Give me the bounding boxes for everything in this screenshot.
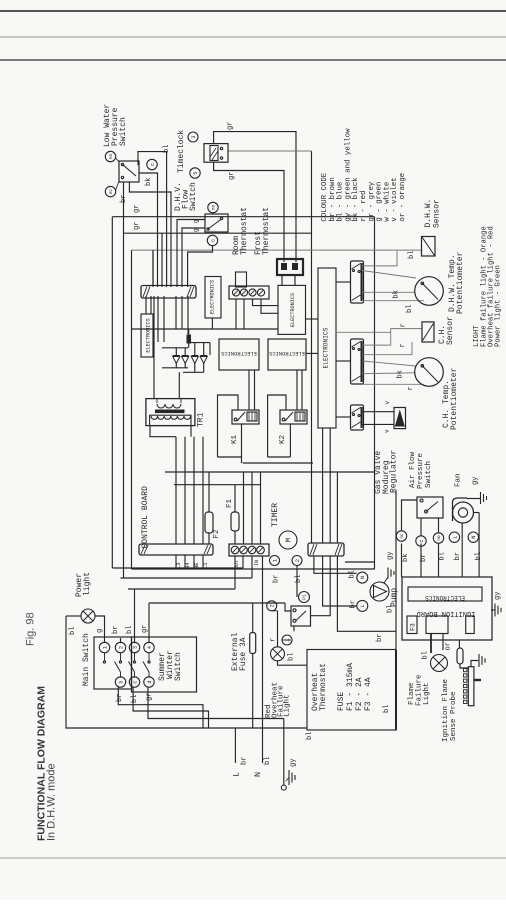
- svg-text:Fuse 3A: Fuse 3A: [239, 637, 248, 671]
- svg-text:bl: bl: [131, 695, 139, 703]
- svg-text:bl: bl: [408, 251, 416, 259]
- svg-text:w - white: w - white: [383, 182, 391, 222]
- svg-text:ELECTRONICS: ELECTRONICS: [425, 594, 465, 601]
- svg-text:L: L: [232, 772, 242, 777]
- svg-text:gy: gy: [290, 759, 298, 767]
- svg-text:c: c: [419, 539, 425, 542]
- svg-text:Ignition Flame: Ignition Flame: [442, 679, 450, 742]
- svg-text:gr: gr: [146, 693, 154, 701]
- svg-text:gr: gr: [133, 205, 141, 213]
- svg-text:TIMER: TIMER: [271, 503, 280, 527]
- svg-text:br: br: [376, 634, 384, 642]
- svg-text:nc: nc: [109, 189, 114, 195]
- svg-text:Thermostat: Thermostat: [319, 663, 328, 711]
- svg-text:Pump: Pump: [390, 588, 399, 607]
- svg-text:bk - black: bk - black: [352, 177, 360, 222]
- svg-text:ELECTRONICS: ELECTRONICS: [290, 293, 296, 327]
- svg-text:r: r: [407, 386, 415, 390]
- svg-text:c: c: [210, 239, 216, 242]
- svg-text:bl: bl: [126, 626, 134, 634]
- svg-text:br: br: [120, 195, 128, 203]
- svg-text:N4: N4: [184, 562, 191, 569]
- svg-text:Sensor: Sensor: [433, 199, 442, 228]
- svg-text:2: 2: [118, 646, 124, 649]
- svg-text:ELECTRONICS: ELECTRONICS: [323, 327, 330, 368]
- svg-text:gy: gy: [387, 552, 395, 560]
- svg-text:d: d: [147, 680, 153, 683]
- svg-text:gr: gr: [228, 172, 236, 180]
- svg-text:g - green: g - green: [376, 182, 384, 222]
- svg-text:Switch: Switch: [189, 182, 198, 211]
- svg-text:ELECTRONICS: ELECTRONICS: [269, 350, 305, 356]
- svg-text:bl: bl: [306, 732, 314, 740]
- svg-text:Thermostat: Thermostat: [240, 207, 249, 255]
- svg-text:L3: L3: [175, 562, 182, 569]
- svg-text:Thermostat: Thermostat: [262, 207, 271, 255]
- svg-text:K2: K2: [279, 435, 287, 444]
- svg-text:3: 3: [191, 135, 197, 138]
- svg-text:ELECTRONICS: ELECTRONICS: [221, 350, 257, 356]
- svg-text:Switch: Switch: [425, 461, 433, 488]
- svg-text:nc: nc: [400, 533, 405, 539]
- svg-text:b: b: [118, 680, 124, 683]
- svg-text:L: L: [360, 604, 366, 607]
- svg-text:v: v: [384, 401, 391, 405]
- svg-text:P1: P1: [302, 594, 308, 600]
- svg-text:no: no: [212, 205, 217, 211]
- svg-text:4: 4: [147, 646, 153, 649]
- svg-text:bl: bl: [383, 705, 391, 713]
- svg-text:br: br: [241, 757, 249, 765]
- svg-text:c: c: [150, 163, 156, 166]
- svg-text:CONTROL BOARD: CONTROL BOARD: [141, 486, 150, 549]
- svg-text:1: 1: [102, 646, 108, 649]
- svg-text:bl - blue: bl - blue: [337, 182, 345, 222]
- svg-text:COLOUR CODE: COLOUR CODE: [321, 172, 329, 221]
- svg-text:1: 1: [272, 559, 278, 562]
- svg-text:no: no: [109, 154, 114, 160]
- svg-text:F2: F2: [213, 529, 221, 538]
- svg-text:r: r: [399, 343, 407, 347]
- svg-text:OUT: OUT: [234, 560, 240, 569]
- svg-text:Switch: Switch: [174, 652, 183, 681]
- svg-text:gr - grey: gr - grey: [368, 181, 376, 221]
- svg-text:bk: bk: [402, 554, 410, 562]
- svg-text:r: r: [270, 638, 278, 642]
- svg-text:5: 5: [193, 171, 199, 174]
- svg-text:bl: bl: [406, 305, 414, 313]
- svg-text:FUSE: FUSE: [337, 692, 346, 711]
- svg-text:F2 - 2A: F2 - 2A: [355, 677, 364, 711]
- svg-text:TR1: TR1: [197, 412, 206, 427]
- svg-text:3: 3: [132, 646, 138, 649]
- svg-text:K1: K1: [231, 434, 239, 444]
- svg-text:N: N: [471, 536, 477, 539]
- svg-text:br - brown: br - brown: [329, 177, 337, 221]
- svg-text:Fan: Fan: [455, 473, 463, 487]
- svg-text:ELECTRONICS: ELECTRONICS: [146, 318, 152, 352]
- svg-text:Potentiometer: Potentiometer: [450, 367, 459, 430]
- svg-text:Light: Light: [284, 694, 292, 717]
- svg-text:gy: gy: [472, 477, 480, 485]
- svg-text:no: no: [437, 535, 442, 541]
- svg-text:N: N: [253, 772, 263, 777]
- svg-text:bk: bk: [145, 178, 153, 186]
- svg-text:bl: bl: [475, 552, 483, 560]
- svg-text:2: 2: [295, 559, 301, 562]
- svg-text:F1 - 315mA: F1 - 315mA: [346, 663, 355, 711]
- svg-text:light: light: [83, 572, 92, 596]
- svg-text:bl: bl: [349, 570, 357, 578]
- svg-text:ELECTRONICS: ELECTRONICS: [210, 280, 216, 314]
- svg-text:Switch: Switch: [119, 117, 128, 146]
- svg-text:bl: bl: [422, 651, 430, 659]
- svg-text:r - red: r - red: [360, 191, 368, 222]
- svg-text:Potentiometer: Potentiometer: [456, 251, 465, 314]
- svg-text:gy - green and yellow: gy - green and yellow: [344, 128, 352, 222]
- svg-text:bk: bk: [393, 290, 401, 298]
- svg-text:Pressure: Pressure: [417, 453, 425, 489]
- svg-text:br: br: [112, 626, 120, 634]
- svg-text:Main Switch: Main Switch: [82, 633, 91, 686]
- svg-text:bl: bl: [264, 757, 272, 765]
- svg-text:bl: bl: [439, 552, 447, 560]
- svg-text:F1: F1: [226, 498, 234, 508]
- svg-text:or: or: [445, 642, 453, 650]
- svg-text:Air Flow: Air Flow: [409, 451, 417, 488]
- svg-text:F3: F3: [410, 623, 417, 631]
- svg-text:gr: gr: [141, 625, 149, 633]
- svg-text:Power light - Green: Power light - Green: [495, 265, 503, 347]
- svg-text:L1: L1: [202, 562, 209, 569]
- svg-text:br: br: [273, 575, 281, 583]
- svg-text:2: 2: [270, 604, 276, 607]
- svg-text:IN: IN: [254, 560, 260, 566]
- svg-text:bl: bl: [69, 627, 77, 635]
- svg-text:In D.H.W. mode: In D.H.W. mode: [46, 763, 58, 841]
- svg-text:bl: bl: [288, 653, 296, 661]
- svg-text:v - violet: v - violet: [391, 177, 399, 221]
- svg-text:Sense Probe: Sense Probe: [450, 691, 458, 741]
- svg-text:N: N: [360, 576, 366, 579]
- svg-text:or - orange: or - orange: [399, 173, 407, 222]
- svg-text:br: br: [350, 600, 358, 608]
- svg-text:M: M: [286, 538, 294, 542]
- svg-text:br: br: [116, 694, 124, 702]
- svg-text:Light: Light: [423, 682, 431, 705]
- svg-text:v: v: [384, 429, 391, 433]
- svg-text:L: L: [452, 536, 458, 539]
- svg-text:bk: bk: [397, 370, 405, 378]
- svg-text:Sensor: Sensor: [446, 316, 455, 345]
- svg-text:Fig. 98: Fig. 98: [25, 612, 37, 646]
- svg-text:br: br: [454, 552, 462, 560]
- svg-text:gy: gy: [494, 592, 502, 600]
- svg-text:bl: bl: [295, 575, 303, 583]
- svg-text:c: c: [132, 680, 138, 683]
- svg-text:g: g: [193, 228, 200, 232]
- svg-text:F3 - 4A: F3 - 4A: [364, 677, 373, 711]
- svg-text:gr: gr: [227, 122, 235, 130]
- svg-text:gr: gr: [133, 222, 141, 230]
- svg-text:NE: NE: [193, 562, 200, 569]
- svg-text:r: r: [400, 323, 408, 327]
- svg-text:g: g: [96, 629, 104, 633]
- svg-text:Regulator: Regulator: [390, 450, 399, 493]
- svg-text:Timeclock: Timeclock: [177, 130, 186, 173]
